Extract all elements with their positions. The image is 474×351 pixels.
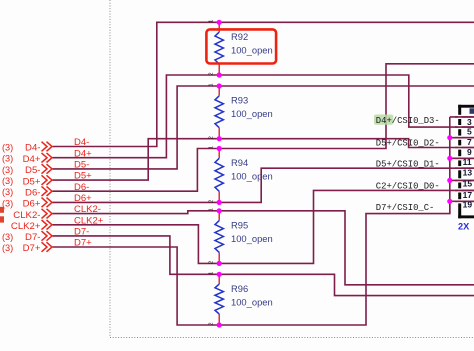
junction node at 219,86 — [217, 83, 222, 88]
selection highlight blob CLK2- — [0, 207, 4, 213]
off-page connector D4+ — [2, 153, 52, 165]
wire pin entry at y=147.5 — [458, 145, 462, 149]
resistor R95 100_open — [209, 208, 273, 264]
connector bottom edge — [458, 215, 474, 218]
connector top edge — [458, 105, 474, 108]
junction node at 219,274 — [217, 272, 222, 277]
svg-text:11: 11 — [463, 157, 472, 167]
page border dashed vertical — [109, 0, 111, 338]
svg-text:(3): (3) — [2, 243, 13, 253]
svg-text:D4+: D4+ — [23, 154, 41, 165]
svg-text:1: 1 — [209, 208, 215, 211]
wire pin entry at y=168.2 — [458, 166, 462, 170]
svg-text:D7-: D7- — [74, 227, 89, 238]
svg-text:D7-: D7- — [25, 232, 40, 243]
svg-text:D5+: D5+ — [74, 171, 92, 182]
svg-text:(3): (3) — [2, 232, 13, 242]
svg-text:(3): (3) — [2, 154, 13, 164]
page border dashed horizontal — [110, 337, 474, 339]
svg-text:D4+/CSI0_D3-: D4+/CSI0_D3- — [376, 116, 440, 126]
wire CLK2+ net (row to R95 pin2 then connector pin 17) — [53, 190, 474, 263]
wire D5- net (row to R93 pin1 and off right edge) — [53, 86, 474, 169]
svg-text:15: 15 — [463, 179, 473, 189]
resistor R94 100_open — [209, 146, 273, 203]
wire pin entry at y=137.7 — [458, 136, 462, 140]
wire D7- net (row to R96 pin1 and off right edge) — [53, 236, 474, 296]
svg-text:3: 3 — [467, 117, 472, 127]
svg-text:1: 1 — [209, 272, 215, 275]
wire pin 3 stub — [450, 116, 474, 118]
off-page connector D5+ — [2, 175, 52, 187]
svg-text:D5+/CSI0_D1-: D5+/CSI0_D1- — [376, 159, 440, 169]
svg-text:2: 2 — [209, 261, 215, 264]
wire D4- net (row to R92 pin1 and off right edge) — [53, 22, 474, 146]
junction node at 219,139 — [217, 136, 222, 141]
junction node at 450,201 — [447, 199, 452, 204]
selection highlight box around R92 — [206, 29, 276, 63]
junction node at 219,22 — [217, 20, 222, 25]
junction node at 450,138 — [447, 135, 452, 140]
wire pin 11 stub — [450, 157, 474, 159]
svg-text:1: 1 — [209, 83, 215, 86]
selection highlight blob CLK2+ — [0, 216, 4, 222]
svg-text:D7+: D7+ — [23, 243, 41, 254]
svg-text:D4-: D4- — [74, 137, 89, 148]
wire pin entry at y=127.1 — [458, 125, 462, 129]
svg-text:CLK2-: CLK2- — [13, 210, 40, 221]
resistor R92 100_open — [209, 20, 273, 76]
svg-text:D6-: D6- — [74, 182, 89, 193]
svg-text:CLK2-: CLK2- — [74, 204, 101, 215]
wire pin entry at y=116.9 — [458, 115, 462, 119]
svg-text:19: 19 — [463, 199, 473, 209]
svg-text:R94: R94 — [231, 157, 248, 168]
svg-text:CLK2+: CLK2+ — [11, 221, 41, 232]
off-page connector D7+ — [2, 242, 52, 254]
junction node at 219,202 — [217, 200, 222, 205]
off-page connector D7- — [2, 231, 52, 243]
svg-text:D6+: D6+ — [23, 199, 41, 210]
svg-text:D4-: D4- — [25, 143, 40, 154]
svg-text:1: 1 — [209, 146, 215, 149]
wire pin entry at y=180.4 — [458, 178, 462, 182]
svg-text:2X: 2X — [458, 222, 470, 232]
highlight on D4+ text — [374, 115, 393, 125]
svg-text:(3): (3) — [2, 187, 13, 197]
wire D7+ net (row to R96 pin2 then connector pin 19) — [53, 201, 474, 325]
off-page connector D6- — [2, 186, 52, 198]
svg-text:5: 5 — [467, 127, 472, 137]
junction node at 219,263 — [217, 261, 222, 266]
wire pin entry at y=158.3 — [458, 156, 462, 160]
wire D5+ net (row to R93 pin2, corner down to pin 9 row) — [53, 139, 474, 180]
svg-text:100_open: 100_open — [231, 297, 273, 308]
off-page connector CLK2- — [13, 209, 52, 221]
svg-text:17: 17 — [463, 190, 473, 200]
svg-text:D7+/CSI0_C-: D7+/CSI0_C- — [376, 203, 435, 213]
off-page connector CLK2+ — [11, 220, 52, 232]
junction node at 219,75 — [217, 72, 222, 77]
svg-text:R96: R96 — [231, 283, 248, 294]
svg-text:13: 13 — [463, 168, 473, 178]
svg-text:2: 2 — [209, 322, 215, 325]
off-page connector D5- — [2, 164, 52, 176]
junction node at 219,325 — [217, 322, 222, 327]
junction node at 219,148 — [217, 146, 222, 151]
junction node at 450,180 — [447, 178, 452, 183]
svg-text:100_open: 100_open — [231, 108, 273, 119]
off-page connector D6+ — [2, 198, 52, 210]
connector pin 1 name box — [470, 108, 474, 114]
svg-text:D7+: D7+ — [74, 238, 92, 249]
svg-text:D6-: D6- — [25, 187, 40, 198]
svg-text:2: 2 — [209, 200, 215, 203]
junction node at 219,211 — [217, 208, 222, 213]
connector J1 2X header body edge left — [458, 105, 461, 219]
svg-text:CLK2+: CLK2+ — [74, 215, 104, 226]
svg-text:D6+: D6+ — [74, 193, 92, 204]
svg-text:D5+/CSI0_D2-: D5+/CSI0_D2- — [376, 138, 440, 148]
svg-text:D4+: D4+ — [74, 148, 92, 159]
svg-text:2: 2 — [209, 136, 215, 139]
svg-text:R93: R93 — [231, 95, 248, 106]
svg-text:1: 1 — [209, 20, 215, 23]
svg-text:2: 2 — [209, 72, 215, 75]
off-page connector D4- — [2, 142, 52, 154]
wire CLK2- net (row to R95 pin1 and off right edge) — [53, 211, 474, 285]
wire D6+ net (row through R94 pin2 to connector pin 13) — [53, 168, 474, 202]
svg-text:(3): (3) — [2, 165, 13, 175]
wire pin entry at y=190.4 — [458, 188, 462, 192]
svg-text:D5-: D5- — [74, 160, 89, 171]
svg-text:7: 7 — [467, 137, 472, 147]
svg-text:R92: R92 — [231, 31, 248, 42]
svg-text:100_open: 100_open — [231, 233, 273, 244]
svg-text:(3): (3) — [2, 142, 13, 152]
wire pin entry at y=201.3 — [458, 199, 462, 203]
svg-text:C2+/CSI0_D0-: C2+/CSI0_D0- — [376, 181, 440, 191]
resistor R93 100_open — [209, 83, 273, 139]
wire D4+ net (row to R92 pin2 then to connector pin 5) — [53, 75, 474, 158]
resistor R96 100_open — [209, 272, 273, 326]
wire pin 15 stub — [450, 179, 474, 181]
wire D6- net (row to R94 pin1 and off right edge) — [53, 64, 474, 191]
svg-text:100_open: 100_open — [231, 171, 273, 182]
svg-text:100_open: 100_open — [231, 45, 273, 56]
svg-text:(3): (3) — [2, 176, 13, 186]
svg-text:D5+: D5+ — [23, 176, 41, 187]
wire pin 7 stub — [450, 137, 474, 139]
svg-text:9: 9 — [467, 147, 472, 157]
wire connector-side bus joining odd pins — [449, 117, 451, 214]
svg-text:D5-: D5- — [25, 165, 40, 176]
junction node at 450,158 — [447, 156, 452, 161]
svg-text:R95: R95 — [231, 220, 248, 231]
